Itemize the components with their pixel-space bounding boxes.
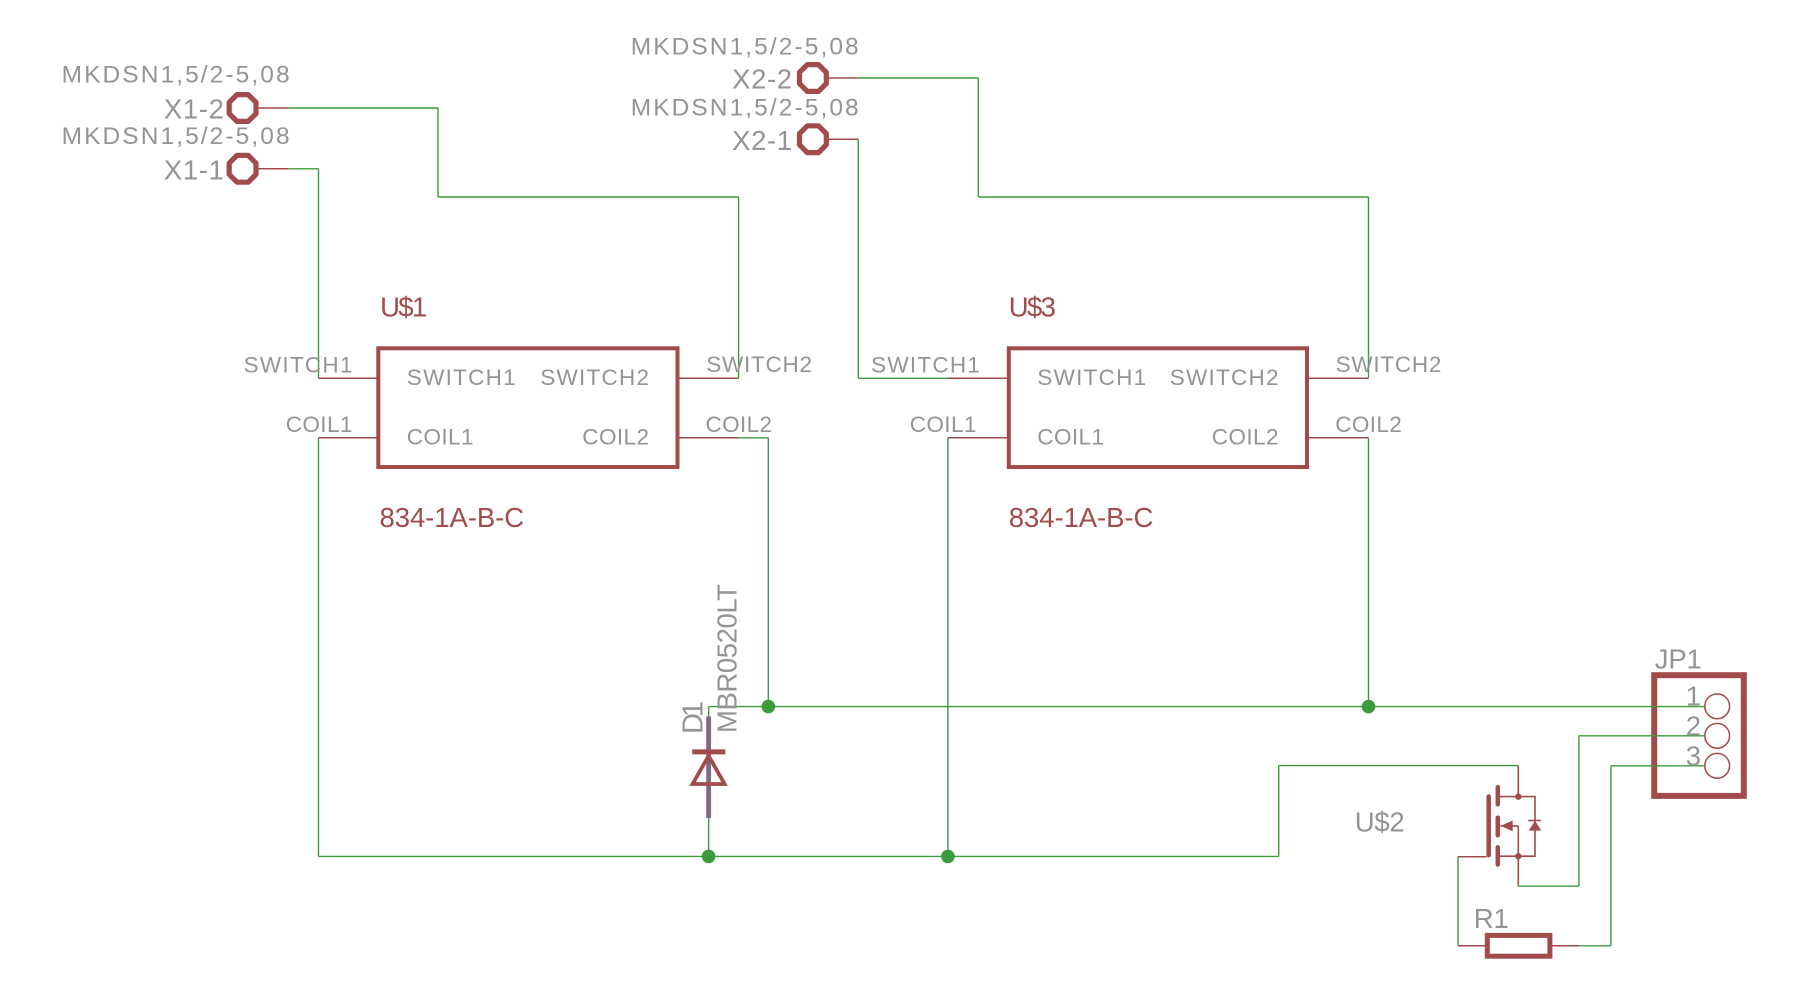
connector pad X1-2 xyxy=(229,95,256,122)
svg-text:SWITCH2: SWITCH2 xyxy=(1170,365,1279,390)
svg-text:SWITCH2: SWITCH2 xyxy=(540,365,649,390)
relay U$1 body xyxy=(378,348,677,467)
wire U$3 COIL2 down xyxy=(1368,438,1370,707)
X2-2 pin stub xyxy=(827,77,859,79)
svg-text:1: 1 xyxy=(1686,681,1701,712)
JP1 pin 3 circle xyxy=(1705,753,1730,778)
svg-text:MKDSN1,5/2-5,08: MKDSN1,5/2-5,08 xyxy=(631,95,859,122)
transistor U$2 gate bar xyxy=(1486,797,1491,856)
U$3 pin SWITCH1 xyxy=(948,377,1009,379)
diode D1 cathode bar xyxy=(692,749,725,754)
wire X2-2 to U$3 SWITCH2 horizontal xyxy=(978,196,1368,198)
svg-text:SWITCH1: SWITCH1 xyxy=(871,352,980,377)
junction dot U$3 COIL1 / bottom net xyxy=(941,850,955,864)
junction dot U$3 COIL2 / mid net xyxy=(1362,700,1376,714)
junction dot U$1 COIL2 / mid net xyxy=(762,700,776,714)
JP1 pin 1 circle xyxy=(1705,694,1730,719)
svg-text:X2-2: X2-2 xyxy=(732,64,792,95)
svg-text:U$3: U$3 xyxy=(1009,291,1056,322)
wire U$2 source horizontal xyxy=(1518,885,1579,887)
wire U$3 COIL1 down xyxy=(947,438,949,857)
svg-text:SWITCH1: SWITCH1 xyxy=(407,365,516,390)
wire U$1 COIL2 down xyxy=(767,438,769,707)
svg-text:D1: D1 xyxy=(678,701,710,734)
svg-text:COIL1: COIL1 xyxy=(407,425,474,450)
X2-1 pin stub xyxy=(827,138,859,140)
wire bottom horizontal net xyxy=(319,855,1279,857)
connector pad X2-1 xyxy=(800,126,827,153)
wire through D1 xyxy=(708,707,710,857)
svg-text:3: 3 xyxy=(1686,741,1701,772)
X1-2 pin stub xyxy=(257,107,289,109)
wire U$1 COIL2 stub xyxy=(739,437,769,439)
wire U$1 COIL1 down xyxy=(318,438,320,857)
U$1 pin COIL1 xyxy=(319,437,379,439)
transistor U$2 channel bar middle xyxy=(1496,818,1501,836)
U$1 pin SWITCH2 xyxy=(678,377,739,379)
JP1 pin 2 circle xyxy=(1705,723,1730,748)
svg-text:COIL2: COIL2 xyxy=(1212,425,1279,450)
svg-text:U$2: U$2 xyxy=(1355,807,1405,838)
wire R1 right xyxy=(1579,945,1611,947)
U$3 pin COIL1 xyxy=(948,437,1009,439)
svg-text:X2-1: X2-1 xyxy=(732,125,792,156)
svg-text:COIL1: COIL1 xyxy=(910,412,977,437)
svg-text:SWITCH1: SWITCH1 xyxy=(1037,365,1146,390)
wire JP1 pin 2 xyxy=(1579,735,1705,737)
svg-text:JP1: JP1 xyxy=(1655,643,1702,674)
U$3 pin SWITCH2 xyxy=(1307,377,1369,379)
wire X2-1 down xyxy=(857,139,859,378)
wire X1-1 down to U$1 SWITCH1 xyxy=(318,169,320,378)
transistor U$2 body diode branch xyxy=(1518,797,1535,857)
svg-text:X1-2: X1-2 xyxy=(164,94,224,125)
wire X1-1 stub xyxy=(288,168,318,170)
U$3 pin COIL2 xyxy=(1307,437,1369,439)
svg-text:COIL2: COIL2 xyxy=(1335,412,1402,437)
wire JP1 pin 3 xyxy=(1611,765,1705,767)
U$1 pin SWITCH1 xyxy=(319,377,379,379)
relay U$3 body xyxy=(1009,348,1307,467)
wire X2-1 to U$3 SWITCH1 xyxy=(858,377,948,379)
svg-text:COIL1: COIL1 xyxy=(286,412,353,437)
X1-1 pin stub xyxy=(257,168,289,170)
wire X1-2 to U$1 SWITCH2 horizontal xyxy=(438,196,739,198)
svg-text:X1-1: X1-1 xyxy=(164,154,224,185)
R1 right lead xyxy=(1550,945,1579,947)
wire X1-2 horizontal xyxy=(288,107,438,109)
svg-text:MBR0520LT: MBR0520LT xyxy=(712,584,743,733)
wire down to U$3 SWITCH2 xyxy=(1368,197,1370,378)
connector pad X1-1 xyxy=(229,155,256,182)
svg-text:834-1A-B-C: 834-1A-B-C xyxy=(1009,502,1154,533)
connector JP1 body xyxy=(1654,675,1744,796)
wire X2-2 vertical xyxy=(977,78,979,197)
svg-text:R1: R1 xyxy=(1474,903,1509,934)
resistor R1 body xyxy=(1487,935,1550,956)
svg-text:COIL2: COIL2 xyxy=(582,425,649,450)
diode D1 pin (purple) xyxy=(706,717,711,819)
svg-text:MKDSN1,5/2-5,08: MKDSN1,5/2-5,08 xyxy=(631,34,859,61)
U$1 pin COIL2 xyxy=(678,437,739,439)
junction dot D1 anode / bottom net xyxy=(702,850,716,864)
wire X2-2 horizontal xyxy=(858,77,978,79)
transistor U$2 channel bar top xyxy=(1496,787,1501,804)
svg-text:COIL2: COIL2 xyxy=(706,412,773,437)
wire bottom net up xyxy=(1278,766,1280,857)
wire down to U$1 SWITCH2 xyxy=(738,197,740,378)
svg-text:SWITCH2: SWITCH2 xyxy=(1336,352,1442,377)
U$2 gate lead xyxy=(1458,856,1487,858)
R1 left lead xyxy=(1458,945,1487,947)
svg-text:COIL1: COIL1 xyxy=(1037,425,1104,450)
wire U$2 source down xyxy=(1578,736,1580,886)
transistor U$2 source lead xyxy=(1500,856,1518,886)
svg-text:2: 2 xyxy=(1686,711,1701,742)
connector pad X2-2 xyxy=(800,65,827,92)
svg-text:SWITCH1: SWITCH1 xyxy=(244,352,353,377)
wire JP1 pin3 down xyxy=(1610,766,1612,946)
svg-text:U$1: U$1 xyxy=(380,291,427,322)
wire mid net to JP1 pin 1 xyxy=(709,706,1705,708)
svg-text:MKDSN1,5/2-5,08: MKDSN1,5/2-5,08 xyxy=(62,123,290,150)
wire to U$2 drain xyxy=(1279,765,1519,767)
transistor U$2 body diode symbol xyxy=(1528,820,1541,822)
svg-text:SWITCH2: SWITCH2 xyxy=(706,352,812,377)
diode D1 triangle xyxy=(693,756,725,784)
wire X1-2 vertical xyxy=(437,108,439,197)
svg-text:834-1A-B-C: 834-1A-B-C xyxy=(380,502,525,533)
transistor U$2 channel bar bottom xyxy=(1496,847,1501,864)
transistor U$2 bulk connection + arrow xyxy=(1501,825,1519,827)
svg-text:MKDSN1,5/2-5,08: MKDSN1,5/2-5,08 xyxy=(62,62,290,89)
transistor U$2 drain lead xyxy=(1500,766,1518,797)
wire R1 left to gate xyxy=(1457,857,1459,946)
